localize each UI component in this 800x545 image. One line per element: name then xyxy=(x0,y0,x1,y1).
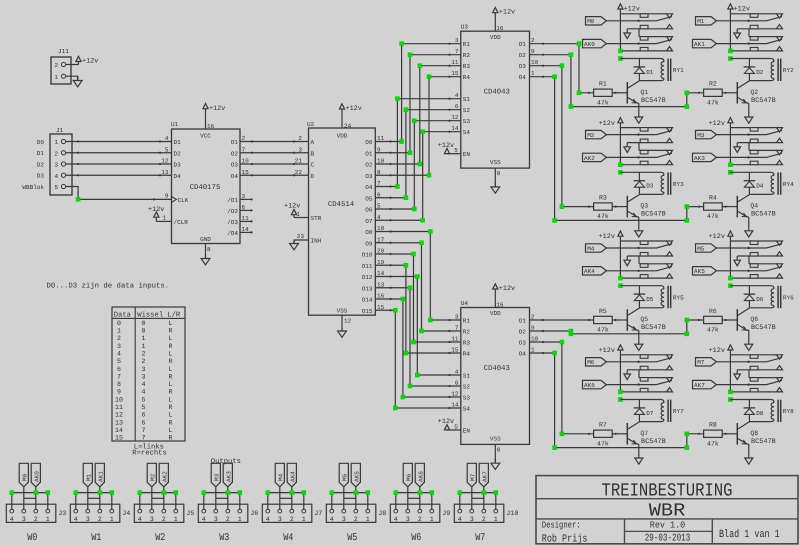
junction xyxy=(401,395,406,400)
svg-text:O4: O4 xyxy=(519,74,527,81)
diode D3 xyxy=(634,172,654,194)
relay contact NC1 RY6 xyxy=(730,241,782,245)
wire M to pin3 xyxy=(279,487,281,509)
wire U2 O7 to U3 S4 xyxy=(375,131,461,222)
svg-text:C: C xyxy=(311,162,315,169)
svg-text:+12v: +12v xyxy=(709,233,725,241)
svg-text:+12v: +12v xyxy=(346,105,362,113)
svg-text:+12v: +12v xyxy=(438,418,454,426)
svg-text:W0: W0 xyxy=(27,532,37,544)
svg-text:15: 15 xyxy=(451,347,459,354)
resistor R3 xyxy=(594,194,613,220)
wire xyxy=(66,140,172,142)
ground contact xyxy=(734,143,741,153)
svg-text:D4: D4 xyxy=(174,173,182,180)
power +12v U4 EN xyxy=(438,418,454,430)
junction xyxy=(618,162,623,167)
wire bus xyxy=(76,493,112,509)
svg-text:8: 8 xyxy=(497,170,501,177)
svg-text:12: 12 xyxy=(344,318,352,325)
wire xyxy=(729,355,731,392)
wire xyxy=(205,244,207,259)
wire AK to pin2 xyxy=(483,487,485,509)
svg-text:AK7: AK7 xyxy=(694,382,705,389)
junction xyxy=(569,104,574,109)
wire emitter xyxy=(748,217,750,230)
tag AK4 xyxy=(287,463,296,487)
svg-text:S1: S1 xyxy=(463,373,471,380)
wire emitter xyxy=(638,444,640,457)
junction xyxy=(685,432,690,437)
svg-text:O9: O9 xyxy=(365,240,373,247)
transistor Q2 xyxy=(737,81,776,105)
svg-text:15: 15 xyxy=(115,435,123,442)
junction xyxy=(419,240,424,245)
svg-text:/CLR: /CLR xyxy=(174,219,189,226)
svg-text:10: 10 xyxy=(115,396,123,403)
svg-text:3: 3 xyxy=(242,193,246,200)
junction xyxy=(399,139,404,144)
svg-text:Q1: Q1 xyxy=(640,89,648,96)
connector J8 xyxy=(326,504,386,524)
wire bus xyxy=(332,493,368,509)
svg-text:Q7: Q7 xyxy=(640,430,648,437)
junction xyxy=(685,332,690,337)
svg-text:J8: J8 xyxy=(378,510,386,518)
svg-text:RY3: RY3 xyxy=(673,181,684,188)
power +12v relay 7 xyxy=(709,345,733,355)
svg-text:11: 11 xyxy=(451,59,459,66)
svg-text:6: 6 xyxy=(455,103,459,110)
svg-text:1: 1 xyxy=(174,516,178,524)
svg-text:1: 1 xyxy=(117,327,121,334)
junction xyxy=(552,445,557,450)
svg-text:M1: M1 xyxy=(697,18,705,25)
junction xyxy=(428,318,433,323)
power +12v xyxy=(76,56,98,65)
svg-text:47k: 47k xyxy=(707,213,719,220)
svg-text:5: 5 xyxy=(377,203,381,210)
svg-text:47k: 47k xyxy=(597,99,609,106)
wire WBBlok to CLK xyxy=(66,187,172,201)
wire arm AK xyxy=(606,380,672,385)
svg-text:CD4043: CD4043 xyxy=(484,365,510,373)
tag M7 xyxy=(696,358,717,367)
svg-text:19: 19 xyxy=(377,259,385,266)
wire stub xyxy=(240,198,253,200)
svg-text:L: L xyxy=(169,350,173,357)
svg-text:1: 1 xyxy=(366,516,370,524)
ground xyxy=(73,76,82,87)
tag AK6 xyxy=(415,463,424,487)
svg-text:O1: O1 xyxy=(231,139,239,146)
svg-text:1: 1 xyxy=(46,516,50,524)
wire xyxy=(447,153,461,155)
svg-text:2: 2 xyxy=(55,150,59,157)
svg-text:Blad 1 van 1: Blad 1 van 1 xyxy=(719,529,780,541)
junction xyxy=(618,49,623,54)
svg-text:3: 3 xyxy=(406,516,410,524)
svg-text:+12v: +12v xyxy=(599,233,615,241)
svg-text:O5: O5 xyxy=(365,195,373,202)
wire coil top xyxy=(730,400,774,403)
junction xyxy=(395,184,400,189)
junction xyxy=(74,490,79,495)
wire AK to pin2 xyxy=(291,487,293,509)
ground emitter xyxy=(745,116,753,123)
ground U2 xyxy=(338,327,347,337)
wire U2 O3 to U3 R4 xyxy=(375,76,461,177)
svg-text:WBR: WBR xyxy=(649,501,686,522)
junction xyxy=(560,340,565,345)
relay contact NO1 RY6 xyxy=(737,252,782,264)
junction xyxy=(302,490,307,495)
svg-text:+12v: +12v xyxy=(709,120,725,128)
svg-text:D5: D5 xyxy=(646,296,654,303)
ground U1 xyxy=(201,255,210,265)
svg-text:9: 9 xyxy=(377,146,381,153)
svg-text:20: 20 xyxy=(377,248,385,255)
wire xyxy=(66,152,172,154)
svg-text:1: 1 xyxy=(142,343,146,350)
junction xyxy=(404,263,409,268)
wire U4 O3 to R7 xyxy=(530,341,594,435)
ground emitter xyxy=(745,457,753,464)
wire coil bottom xyxy=(749,192,774,194)
IC U3 CD4043 xyxy=(461,24,530,168)
connector J4 xyxy=(70,504,130,524)
wire coil bottom xyxy=(749,306,774,308)
svg-text:4: 4 xyxy=(394,516,398,524)
junction xyxy=(404,107,409,112)
relay contact NC2 RY7 xyxy=(639,378,673,382)
wire xyxy=(619,128,621,165)
svg-text:47k: 47k xyxy=(597,327,609,334)
svg-text:4: 4 xyxy=(455,92,459,99)
wire arm AK xyxy=(606,39,672,44)
wire stub xyxy=(240,209,253,211)
svg-text:21: 21 xyxy=(295,158,303,165)
svg-text:D4: D4 xyxy=(756,183,764,190)
wire stub xyxy=(240,220,253,222)
wire AK to pin2 xyxy=(163,487,165,509)
junction xyxy=(415,373,420,378)
svg-text:/O1: /O1 xyxy=(227,197,238,204)
svg-text:4: 4 xyxy=(330,516,334,524)
IC U2 CD4514 xyxy=(307,121,375,315)
wire U3 O1 to R1 xyxy=(530,43,594,94)
junction xyxy=(618,56,623,61)
svg-text:Q2: Q2 xyxy=(750,89,758,96)
tag M4 xyxy=(586,244,607,253)
svg-text:BC547B: BC547B xyxy=(641,211,666,219)
svg-text:4: 4 xyxy=(74,516,78,524)
svg-text:8: 8 xyxy=(207,246,211,253)
relay coil RY1 xyxy=(661,59,684,81)
wire emitter xyxy=(748,103,750,116)
svg-text:J10: J10 xyxy=(506,510,518,518)
wire xyxy=(341,315,343,331)
wire emitter xyxy=(638,103,640,116)
svg-text:R2: R2 xyxy=(463,52,471,59)
svg-text:4: 4 xyxy=(202,516,206,524)
relay contact NC1 RY3 xyxy=(620,128,672,132)
svg-text:2: 2 xyxy=(482,516,486,524)
wire emitter xyxy=(748,331,750,344)
svg-text:4: 4 xyxy=(55,173,59,180)
svg-text:1: 1 xyxy=(430,516,434,524)
junction xyxy=(418,490,423,495)
wire xyxy=(240,140,309,142)
resistor R7 xyxy=(594,422,613,448)
svg-text:R7: R7 xyxy=(599,422,607,429)
svg-text:O2: O2 xyxy=(231,150,239,157)
svg-text:AK2: AK2 xyxy=(161,471,168,482)
svg-text:AK2: AK2 xyxy=(584,155,595,162)
wire xyxy=(240,174,309,176)
power +12v relay 1 xyxy=(728,4,750,14)
svg-text:U2: U2 xyxy=(307,121,315,128)
junction xyxy=(728,170,733,175)
diode D4 xyxy=(744,172,764,194)
svg-text:O2: O2 xyxy=(519,329,527,336)
wire xyxy=(66,64,79,66)
wire xyxy=(494,444,496,463)
svg-text:16: 16 xyxy=(496,302,504,309)
svg-text:+12v: +12v xyxy=(209,105,225,113)
junction xyxy=(393,406,398,411)
svg-text:47k: 47k xyxy=(707,440,719,447)
wire U2 O9 to U4 R2 xyxy=(375,242,461,332)
svg-text:47k: 47k xyxy=(597,440,609,447)
svg-text:D3: D3 xyxy=(646,183,654,190)
title block xyxy=(536,476,798,544)
junction xyxy=(427,173,432,178)
junction xyxy=(401,297,406,302)
svg-text:VDD: VDD xyxy=(490,310,501,317)
ground contact xyxy=(734,370,741,380)
relay contact NO2 RY2 xyxy=(730,47,782,51)
svg-text:O3: O3 xyxy=(231,162,239,169)
junction xyxy=(560,204,565,209)
junction xyxy=(46,490,51,495)
wire U2 O10 to U4 R3 xyxy=(375,253,461,343)
wire M to pin3 xyxy=(87,487,89,509)
relay contact NO1 RY3 xyxy=(627,138,672,150)
wire xyxy=(240,163,309,165)
svg-text:R3: R3 xyxy=(599,194,607,201)
relay coil RY8 xyxy=(771,400,794,422)
svg-text:J7: J7 xyxy=(314,510,322,518)
tag AK3 xyxy=(693,153,717,162)
svg-text:4: 4 xyxy=(455,369,459,376)
svg-text:12: 12 xyxy=(451,114,459,121)
junction xyxy=(569,329,574,334)
connector J5 xyxy=(134,504,194,524)
svg-text:Q4: Q4 xyxy=(750,203,758,210)
relay contact NO2 RY3 xyxy=(620,160,672,164)
svg-text:2: 2 xyxy=(117,335,121,342)
svg-text:14: 14 xyxy=(451,125,459,132)
svg-text:7: 7 xyxy=(455,48,459,55)
wire arm AK xyxy=(716,380,782,385)
svg-text:S1: S1 xyxy=(463,96,471,103)
svg-text:O12: O12 xyxy=(362,274,373,281)
tag AK6 xyxy=(583,380,607,389)
resistor R1 xyxy=(594,81,613,107)
svg-text:+12v: +12v xyxy=(499,285,515,293)
ground U4 xyxy=(491,459,500,469)
wire xyxy=(66,174,172,176)
svg-text:M3: M3 xyxy=(697,132,705,139)
svg-text:3: 3 xyxy=(86,516,90,524)
tag M7 xyxy=(467,463,476,487)
wire U2 O13 to U4 S2 xyxy=(375,287,461,387)
wire U2 O14 to U4 S3 xyxy=(375,298,461,398)
relay contact NO2 RY6 xyxy=(730,274,782,278)
junction xyxy=(728,56,733,61)
wire INH xyxy=(294,240,309,243)
svg-text:O4: O4 xyxy=(365,184,373,191)
svg-text:Outputs: Outputs xyxy=(211,458,241,466)
wire U2 O2 to U3 R3 xyxy=(375,65,461,165)
svg-text:2: 2 xyxy=(242,135,246,142)
junction xyxy=(354,490,359,495)
svg-text:+12v: +12v xyxy=(284,203,300,211)
svg-text:12: 12 xyxy=(115,412,123,419)
svg-text:7: 7 xyxy=(142,427,146,434)
svg-text:D2: D2 xyxy=(174,150,182,157)
svg-text:+12v: +12v xyxy=(599,120,615,128)
wire U2 O11 to U4 R4 xyxy=(375,264,461,354)
svg-text:W7: W7 xyxy=(475,532,485,544)
junction xyxy=(560,432,565,437)
wire xyxy=(729,128,731,165)
relay contact NO2 RY1 xyxy=(620,47,672,51)
svg-text:Q8: Q8 xyxy=(750,430,758,437)
svg-text:R: R xyxy=(169,327,173,334)
svg-text:1: 1 xyxy=(55,74,59,81)
relay contact NC2 RY5 xyxy=(639,264,673,268)
junction xyxy=(728,276,733,281)
svg-text:1: 1 xyxy=(142,335,146,342)
junction xyxy=(174,490,179,495)
svg-text:5: 5 xyxy=(142,404,146,411)
wire AK to pin2 xyxy=(419,487,421,509)
svg-text:1: 1 xyxy=(162,215,166,222)
svg-text:M4: M4 xyxy=(587,245,595,252)
wire U4 O1 to R5 xyxy=(530,319,594,321)
resistor R6 xyxy=(704,308,723,334)
connector J9 xyxy=(390,504,450,524)
svg-text:RY2: RY2 xyxy=(783,67,794,74)
diode D8 xyxy=(744,400,764,422)
tag AK5 xyxy=(351,463,360,487)
svg-text:Q6: Q6 xyxy=(750,316,758,323)
junction xyxy=(110,490,115,495)
ground contact xyxy=(734,256,741,266)
svg-text:/O2: /O2 xyxy=(227,208,238,215)
resistor R4 xyxy=(704,194,723,220)
wire U2 O6 to U3 S3 xyxy=(375,120,461,210)
junction xyxy=(408,384,413,389)
svg-text:O7: O7 xyxy=(365,218,373,225)
svg-text:M5: M5 xyxy=(341,473,348,481)
svg-text:M5: M5 xyxy=(697,245,705,252)
junction xyxy=(552,351,557,356)
connector J11 xyxy=(51,48,71,84)
svg-text:17: 17 xyxy=(377,236,385,243)
tag AK0 xyxy=(583,39,607,48)
svg-text:10: 10 xyxy=(377,158,385,165)
wire AK to pin2 xyxy=(355,487,357,509)
svg-text:4: 4 xyxy=(138,516,142,524)
svg-text:R=rechts: R=rechts xyxy=(132,448,167,457)
junction xyxy=(569,52,574,57)
svg-text:D1: D1 xyxy=(37,150,45,157)
svg-text:6: 6 xyxy=(142,412,146,419)
wire emitter xyxy=(748,444,750,457)
svg-text:J3: J3 xyxy=(58,510,66,518)
svg-text:47k: 47k xyxy=(597,213,609,220)
wire M to pin3 xyxy=(151,487,153,509)
wire xyxy=(729,14,731,51)
svg-text:EN: EN xyxy=(463,151,471,158)
svg-text:29-03-2013: 29-03-2013 xyxy=(645,534,691,545)
wire coil top xyxy=(620,172,664,175)
svg-text:3: 3 xyxy=(142,373,146,380)
wire base xyxy=(722,319,737,321)
tag M0 xyxy=(19,463,28,487)
junction xyxy=(238,490,243,495)
transistor Q5 xyxy=(627,308,666,332)
wire coil bottom xyxy=(639,192,664,194)
svg-text:D3: D3 xyxy=(37,173,45,180)
wire AK to pin2 xyxy=(35,487,37,509)
junction xyxy=(430,490,435,495)
diode D2 xyxy=(744,59,764,81)
wire arm AK xyxy=(606,267,672,272)
wire U2 O1 to U3 R2 xyxy=(375,54,461,154)
svg-text:GND: GND xyxy=(200,236,211,243)
ground emitter xyxy=(635,230,643,237)
wire emitter xyxy=(638,217,640,230)
wire base xyxy=(612,433,627,435)
relay contact NO2 RY5 xyxy=(620,274,672,278)
junction xyxy=(418,63,423,68)
svg-text:R1: R1 xyxy=(463,318,471,325)
svg-text:BC547B: BC547B xyxy=(751,324,776,332)
svg-text:47k: 47k xyxy=(707,99,719,106)
wire base xyxy=(722,92,737,94)
svg-text:CLK: CLK xyxy=(178,197,189,204)
connector J7 xyxy=(262,504,322,524)
relay contact NC1 RY5 xyxy=(620,241,672,245)
svg-text:RY4: RY4 xyxy=(783,181,794,188)
wire coil top xyxy=(730,59,774,62)
svg-text:+12v: +12v xyxy=(82,58,98,66)
svg-text:VSS: VSS xyxy=(490,436,501,443)
svg-text:L: L xyxy=(169,320,173,327)
svg-text:15: 15 xyxy=(451,70,459,77)
svg-text:O15: O15 xyxy=(362,308,373,315)
wire U2 O12 to U4 S1 xyxy=(375,275,461,376)
junction xyxy=(427,74,432,79)
svg-text:VDD: VDD xyxy=(490,34,501,41)
power +12v U3 xyxy=(493,8,515,32)
svg-text:O4: O4 xyxy=(231,173,239,180)
svg-text:O2: O2 xyxy=(519,52,527,59)
